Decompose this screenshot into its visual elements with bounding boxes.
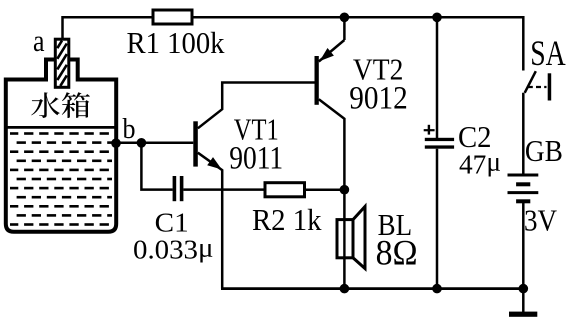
svg-text:R1 100k: R1 100k bbox=[127, 26, 226, 60]
svg-text:a: a bbox=[33, 24, 45, 58]
svg-text:SA: SA bbox=[530, 33, 566, 73]
svg-text:9012: 9012 bbox=[349, 80, 408, 116]
svg-text:9011: 9011 bbox=[229, 141, 283, 177]
svg-text:0.033μ: 0.033μ bbox=[133, 232, 214, 265]
svg-text:8Ω: 8Ω bbox=[376, 232, 418, 272]
svg-text:GB: GB bbox=[525, 134, 563, 168]
svg-text:R2 1k: R2 1k bbox=[252, 203, 322, 237]
svg-text:b: b bbox=[123, 114, 136, 145]
svg-text:47μ: 47μ bbox=[459, 146, 501, 180]
svg-text:3V: 3V bbox=[524, 204, 557, 238]
